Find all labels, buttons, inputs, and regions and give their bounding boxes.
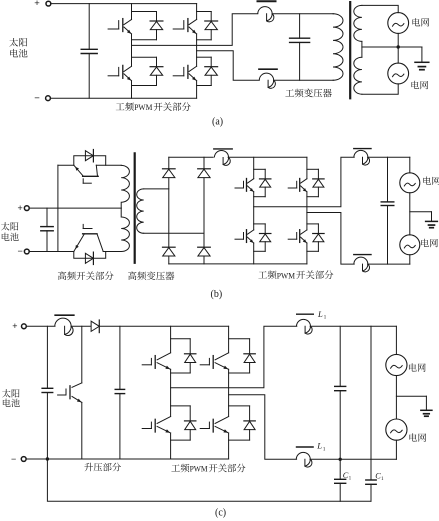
wire output C1 (c)	[171, 326, 297, 388]
wire output A2 (a)	[197, 51, 260, 81]
wire center tap rail (b)	[29, 207, 121, 209]
wire branch top Q3 (b upper-left)	[254, 168, 266, 170]
wire bridge left leg (b)	[168, 157, 170, 169]
wire ac riser upper (b)	[409, 157, 411, 173]
diode Q2 (a upper-right)	[205, 20, 218, 22]
transformer T2 core (b)	[134, 153, 136, 262]
label boost section (c)	[84, 463, 93, 471]
diode D2 (b)	[85, 253, 93, 263]
wire hc left leg upper (c)	[170, 326, 172, 353]
capacitor output (b)	[387, 157, 389, 202]
wire bottom rail (c)	[26, 458, 229, 460]
transformer T1 primary (a)	[333, 14, 343, 81]
svg-text:1: 1	[324, 314, 327, 320]
svg-text:1: 1	[349, 476, 352, 482]
svg-text:−: −	[34, 93, 40, 104]
label transformer (a)	[285, 89, 294, 96]
wire diode lead Q3 (c upper-right)	[249, 339, 251, 354]
inductor filter upper (a)	[258, 0, 276, 2]
wire hc right leg lower (c)	[228, 433, 230, 459]
wire emitter bus (b)	[57, 165, 59, 251]
wire boost collector (c)	[81, 326, 83, 383]
wire right leg mid (a)	[196, 34, 198, 66]
diode Q6 (b lower-right)	[313, 233, 324, 235]
ac source grid upper (a)	[388, 13, 409, 34]
node junction cap bottom (c)	[46, 457, 49, 460]
wire diode lead Q4 (b upper-right)	[317, 169, 319, 179]
diode Q3 (b upper-left)	[260, 178, 271, 180]
node junction feed (c)	[339, 458, 342, 461]
wire right leg lower (a)	[196, 81, 198, 99]
igbt Q4 (a lower-right)	[173, 75, 184, 77]
wire Q2 right lead (b)	[103, 251, 121, 253]
wire bottom feed (c)	[310, 458, 396, 460]
diode Q3 (c upper-right)	[244, 353, 255, 355]
label grid lower (b)	[421, 239, 429, 247]
wire branch top Q4 (b upper-right)	[307, 168, 319, 170]
wire hb left leg lower (b)	[253, 243, 255, 264]
capacitor mid (c)	[339, 326, 341, 386]
wire ac mid (b)	[409, 193, 411, 235]
wire secondary join (a)	[361, 41, 363, 57]
transformer T1 core (a)	[349, 2, 351, 98]
wire top feed (c)	[310, 325, 396, 327]
ground (a)	[421, 47, 423, 62]
label solar cell (c)	[2, 389, 11, 397]
ac source grid upper (b)	[400, 173, 420, 193]
wire Q1 diode loop (b)	[74, 156, 106, 166]
wire output B1 (b)	[254, 157, 355, 206]
wire output C2 (c)	[229, 395, 297, 460]
igbt Q3 (a lower-left)	[108, 75, 119, 77]
wire branch top Q4 (c lower-left)	[171, 405, 191, 407]
wire branch bottom Q3 (c upper-right)	[229, 372, 250, 374]
svg-text:(a): (a)	[212, 116, 223, 127]
label grid upper (c)	[409, 363, 417, 371]
node junction (a)	[397, 45, 400, 48]
diode bridge right upper (b)	[198, 168, 211, 170]
wire ac mid (c)	[395, 376, 397, 419]
label PWM switch section (c)	[171, 464, 180, 471]
svg-text:+: +	[18, 203, 23, 213]
svg-text:L: L	[316, 441, 322, 451]
wire branch bottom Q1 (a upper-left)	[132, 39, 157, 41]
svg-text:1: 1	[323, 446, 326, 452]
svg-text:(c): (c)	[215, 507, 226, 518]
wire branch bottom Q3 (b upper-left)	[254, 196, 266, 198]
wire branch top Q2 (c upper-left)	[171, 338, 191, 340]
label solar cell (b)	[1, 222, 10, 230]
wire diode lead Q3 (b upper-left)	[264, 169, 266, 179]
igbt boost (c)	[58, 394, 66, 396]
inductor output upper (b)	[354, 148, 371, 150]
wire diode lead Q4 (c lower-left)	[189, 406, 191, 421]
wire inductor to diode (c)	[71, 325, 91, 327]
svg-text:−: −	[18, 246, 23, 256]
wire hc left leg mid (c)	[170, 369, 172, 416]
wire left leg mid (a)	[131, 34, 133, 66]
igbt Q5 (c lower-right)	[200, 428, 209, 430]
wire hb right leg lower (b)	[306, 243, 308, 264]
wire diode lead Q2 (a upper-right)	[210, 12, 212, 22]
wire branch bottom Q5 (c lower-right)	[229, 439, 250, 441]
wire top rail (a)	[51, 3, 197, 5]
transformer T2 primary (b)	[121, 165, 129, 251]
wire output B2 (b)	[307, 213, 354, 265]
wire branch top Q3 (c upper-right)	[229, 338, 250, 340]
ac source grid lower (a)	[388, 63, 409, 84]
wire bridge top rail (b)	[169, 156, 213, 158]
wire diode lead Q5 (b lower-left)	[264, 224, 266, 234]
label grid upper (b)	[423, 176, 431, 184]
capacitor C1 right (c)	[370, 479, 372, 481]
wire branch top Q1 (a upper-left)	[132, 11, 157, 13]
label solar cell (a)	[9, 38, 18, 47]
wire branch top Q3 (a lower-left)	[132, 56, 157, 58]
wire hc right leg mid (c)	[228, 369, 230, 416]
wire diode lead Q2 (c upper-left)	[189, 339, 191, 354]
wire boost emitter (c)	[81, 402, 83, 459]
diode Q3 (a lower-left)	[150, 66, 163, 68]
svg-text:1: 1	[381, 476, 384, 482]
wire grid lower top (a)	[397, 47, 399, 63]
wire secondary top to grid (a)	[362, 5, 398, 12]
wire bridge right leg (b)	[203, 157, 205, 169]
wire to transformer bottom (a)	[274, 79, 334, 81]
wire return (c)	[47, 459, 371, 501]
wire branch bottom Q3 (a lower-left)	[132, 85, 157, 87]
inductor boost (c)	[55, 314, 74, 316]
capacitor input (a)	[88, 4, 90, 50]
wire secondary top lead (b)	[144, 188, 169, 190]
wire diode lead Q3 (a lower-left)	[156, 57, 158, 66]
wire branch top Q6 (b lower-right)	[307, 223, 319, 225]
wire center tap (a)	[362, 46, 422, 48]
wire branch bottom Q4 (a lower-right)	[197, 85, 212, 87]
svg-text:+: +	[34, 0, 40, 9]
svg-text:(b): (b)	[211, 289, 223, 300]
igbt Q5 (b lower-left)	[235, 238, 244, 240]
igbt Q4 (b upper-right)	[288, 187, 297, 189]
diode D1 (b)	[85, 151, 93, 161]
wire branch bottom Q5 (b lower-left)	[254, 250, 266, 252]
label grid lower (a)	[411, 81, 419, 89]
wire diode lead Q5 (c lower-right)	[249, 406, 251, 421]
wire hc left leg lower (c)	[170, 433, 172, 459]
wire left leg lower (a)	[131, 81, 133, 99]
wire Q2 diode loop (b)	[74, 252, 106, 259]
label grid upper (a)	[412, 18, 420, 26]
wire Q1 right lead (b)	[96, 164, 121, 166]
igbt Q3 (b upper-left)	[235, 187, 244, 189]
transformer T2 secondary (b)	[137, 189, 144, 233]
svg-text:L: L	[317, 309, 323, 319]
igbt Q2 (a upper-right)	[173, 28, 184, 30]
diode Q4 (a lower-right)	[205, 66, 218, 68]
wire grid feed lower (b)	[368, 263, 410, 265]
inductor L1 upper (c)	[297, 313, 314, 315]
wire diode to bridge (c)	[99, 325, 228, 327]
wire hb left leg upper (b)	[253, 157, 255, 178]
wire output A1 (a)	[132, 14, 258, 46]
diode Q5 (c lower-right)	[244, 420, 255, 422]
wire right leg upper (a)	[196, 4, 198, 20]
svg-text:PWM: PWM	[190, 464, 208, 474]
wire grid upper bottom (a)	[397, 33, 399, 47]
wire ground tee (b)	[410, 211, 432, 213]
igbt Q2 (c upper-left)	[142, 364, 151, 366]
inductor output lower (b)	[354, 254, 371, 256]
wire left leg upper (a)	[131, 4, 133, 20]
label hf transformer (b)	[128, 271, 136, 280]
wire right branch (c)	[370, 326, 372, 480]
wire branch bottom Q4 (c lower-left)	[171, 439, 191, 441]
wire branch top Q5 (c lower-right)	[229, 405, 250, 407]
wire hb right leg upper (b)	[306, 157, 308, 178]
wire hb left leg mid (b)	[253, 192, 255, 230]
wire bottom rail (b)	[29, 251, 74, 253]
inductor dc link (b)	[214, 148, 232, 150]
capacitor input (b)	[46, 208, 48, 227]
ac source grid upper (c)	[386, 354, 407, 375]
ac source grid lower (c)	[386, 419, 407, 440]
wire Q1 left lead (b)	[58, 164, 74, 166]
igbt Q4 (c lower-left)	[142, 428, 151, 430]
diode bridge left upper (b)	[163, 168, 176, 170]
wire hc right leg upper (c)	[228, 326, 230, 353]
wire branch top Q5 (b lower-left)	[254, 223, 266, 225]
diode Q5 (b lower-left)	[260, 233, 271, 235]
ground (b)	[431, 212, 433, 222]
wire dc link (b)	[228, 156, 307, 158]
svg-text:−: −	[11, 454, 16, 464]
label grid lower (c)	[409, 433, 417, 441]
svg-text:PWM: PWM	[134, 102, 153, 112]
wire secondary bottom lead (b)	[144, 232, 204, 234]
igbt Q6 (b lower-right)	[288, 238, 297, 240]
wire diode lead Q1 (a upper-left)	[156, 12, 158, 22]
diode bridge right lower (b)	[198, 246, 211, 248]
capacitor filter (a)	[299, 14, 301, 38]
transformer T1 secondary upper (a)	[354, 5, 362, 41]
wire bridge bottom rail (b)	[169, 263, 307, 265]
wire branch top Q2 (a upper-right)	[197, 11, 212, 13]
diode Q1 (a upper-left)	[150, 20, 163, 22]
diode bridge left lower (b)	[163, 246, 176, 248]
wire diode lead Q4 (a lower-right)	[210, 57, 212, 66]
wire diode lead Q6 (b lower-right)	[317, 224, 319, 234]
label PWM switch section (a)	[116, 103, 125, 110]
wire ac riser lower (b)	[409, 255, 411, 264]
diode Q4 (b upper-right)	[313, 178, 324, 180]
wire branch bottom Q4 (b upper-right)	[307, 196, 319, 198]
capacitor C1 left (c)	[339, 459, 341, 479]
label hf switch section (b)	[58, 271, 66, 280]
transformer T1 secondary lower (a)	[354, 57, 362, 94]
capacitor boost output (c)	[119, 326, 121, 389]
wire hb right leg mid (b)	[306, 192, 308, 230]
ground (c)	[425, 396, 427, 410]
wire branch top Q4 (a lower-right)	[197, 56, 212, 58]
svg-text:PWM: PWM	[277, 270, 296, 280]
capacitor input (c)	[46, 326, 48, 388]
wire bottom rail (a)	[50, 97, 196, 99]
diode Q2 (c upper-left)	[185, 353, 196, 355]
ac source grid lower (b)	[400, 235, 420, 255]
igbt Q1 (b)	[83, 175, 99, 177]
wire grid lower bottom (a)	[362, 84, 398, 94]
wire ac riser lower (c)	[395, 440, 397, 459]
wire to transformer top (a)	[272, 13, 334, 15]
label PWM switch section (b)	[258, 271, 267, 278]
svg-text:+: +	[12, 321, 17, 331]
inductor filter lower (a)	[259, 68, 277, 70]
igbt Q2 (b)	[83, 233, 97, 235]
wire ground tee (c)	[396, 395, 426, 397]
wire branch bottom Q6 (b lower-right)	[307, 250, 319, 252]
wire grid feed upper (b)	[368, 156, 410, 158]
igbt Q1 (a upper-left)	[108, 28, 119, 30]
wire ac riser upper (c)	[395, 326, 397, 354]
wire input (c)	[26, 325, 55, 327]
diode boost (c)	[91, 321, 99, 331]
igbt Q3 (c upper-right)	[200, 364, 209, 366]
inductor L1 lower (c)	[297, 446, 314, 448]
wire branch bottom Q2 (a upper-right)	[197, 39, 212, 41]
diode Q4 (c lower-left)	[185, 420, 196, 422]
wire branch bottom Q2 (c upper-left)	[171, 372, 191, 374]
